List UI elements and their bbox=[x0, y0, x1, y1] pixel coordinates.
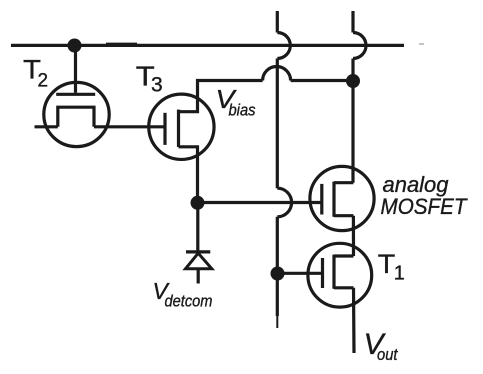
transistor T1 gate bar bbox=[321, 258, 324, 288]
node: junction dot on rail (T2 gate tap) bbox=[68, 39, 82, 53]
wire: T2 left source lead bbox=[35, 125, 58, 128]
wire: Vbias wire to right vertical rail bbox=[291, 79, 353, 82]
transistor analog MOSFET channel bar bbox=[332, 182, 335, 217]
svg-text:3: 3 bbox=[151, 73, 163, 96]
wire: left rail hop over top supply rail bbox=[277, 33, 290, 59]
wire: analog MOSFET source down to T1 drain bbox=[352, 216, 355, 256]
wire: Vbias hop arc over left vertical wire bbox=[263, 67, 291, 81]
wire: right vertical rail top stub bbox=[351, 11, 354, 33]
wire: right vertical rail down to analog MOSFET drain bbox=[351, 59, 354, 183]
label Vout bbox=[364, 328, 399, 364]
wire: T1 source bar bbox=[334, 286, 354, 289]
wire: T3 source down to node bbox=[179, 147, 198, 203]
node: Vbias junction dot bbox=[346, 74, 360, 88]
wire: T1 drain bar bbox=[334, 254, 354, 257]
transistor T2 body circle bbox=[44, 82, 109, 146]
wire: T1 source down to Vout bbox=[352, 288, 356, 353]
transistor T3 body circle bbox=[149, 94, 214, 159]
wire: T2 gate lead from rail down bbox=[74, 45, 77, 93]
transistor T2 gate bar bbox=[56, 93, 95, 96]
svg-text:T: T bbox=[378, 249, 396, 279]
wire: gate wire from bias node to analog MOSFET bbox=[198, 201, 322, 204]
transistor T1 channel bar bbox=[332, 255, 335, 289]
transistor T1 body circle bbox=[308, 243, 372, 307]
wire: analog MOSFET source bar bbox=[334, 214, 353, 217]
transistor T3 gate bar bbox=[163, 113, 166, 145]
svg-text:1: 1 bbox=[394, 263, 405, 285]
label T3 bbox=[136, 61, 163, 97]
label Vdetcom bbox=[153, 278, 213, 311]
wire: left vertical rail top stub bbox=[276, 11, 279, 33]
diode D1 cathode bar bbox=[186, 250, 210, 253]
node: bias node junction dot bbox=[191, 196, 205, 210]
svg-text:2: 2 bbox=[38, 70, 49, 91]
wire: left vertical rail middle bbox=[276, 59, 279, 189]
label Vbias bbox=[216, 84, 256, 119]
svg-text:out: out bbox=[377, 345, 399, 364]
svg-text:detcom: detcom bbox=[165, 293, 213, 311]
transistor analog MOSFET gate bar bbox=[320, 184, 323, 215]
wire: right rail hop over top supply rail bbox=[353, 33, 366, 59]
op-amp: none; analog MOSFET body circle bbox=[310, 166, 374, 230]
diode D1 triangle bbox=[186, 253, 212, 269]
wire: left vertical rail thin end bbox=[276, 316, 278, 328]
transistor T3 channel bar bbox=[177, 110, 180, 147]
wire: doubled retrace segment on top rail bbox=[106, 43, 137, 45]
wire: faint stub right of rail end bbox=[419, 43, 424, 45]
transistor T2 channel bbox=[58, 107, 94, 127]
wire: left rail hop over gate wire bbox=[277, 188, 291, 217]
wire: diode anode lead bbox=[197, 269, 200, 284]
wire: T2 drain to T3 gate bbox=[94, 125, 166, 128]
wire: left vertical rail lower bbox=[276, 217, 279, 316]
wire: T1 gate wire from left rail bbox=[278, 272, 323, 275]
label analog MOSFET bbox=[381, 172, 468, 219]
svg-text:MOSFET: MOSFET bbox=[381, 194, 468, 219]
label T2 bbox=[23, 54, 48, 91]
wire: bias node down to diode bbox=[196, 203, 199, 251]
wire: top supply rail bbox=[11, 44, 404, 47]
svg-text:bias: bias bbox=[229, 102, 256, 120]
label T1 bbox=[378, 249, 405, 285]
node: T1 gate junction dot bbox=[271, 267, 285, 281]
wire: analog MOSFET drain bar bbox=[334, 181, 353, 184]
svg-text:analog: analog bbox=[383, 172, 450, 197]
wire: T3 drain up to Vbias corner bbox=[179, 81, 263, 112]
